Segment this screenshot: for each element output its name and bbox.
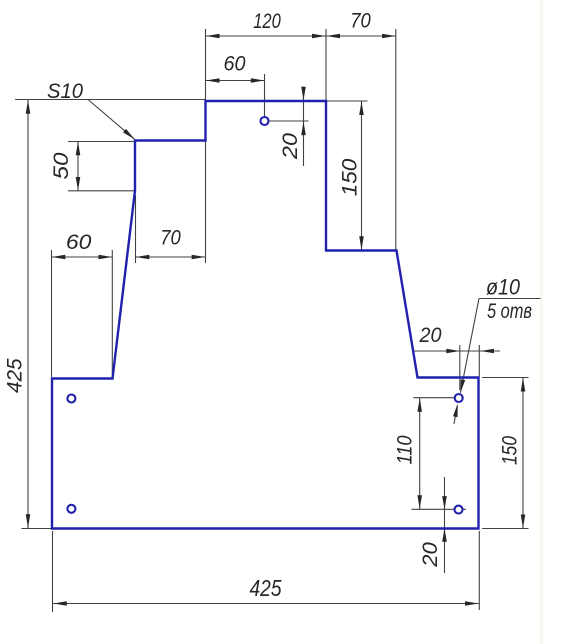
svg-text:20: 20: [419, 323, 442, 347]
arrow phi10 lower (points at circle): [453, 404, 458, 418]
svg-text:150: 150: [498, 436, 522, 465]
arrow 20-top lower (points up): [301, 122, 306, 136]
dimension line 110: [419, 398, 421, 509]
hole H4 right-upper: [455, 394, 463, 402]
svg-text:425: 425: [2, 357, 26, 392]
S10 leader diagonal: [88, 100, 135, 140]
phi10 leader diagonal: [460, 299, 479, 393]
extension line x=479.3 bottom: [478, 531, 480, 610]
arrow 20-right at hole line (points right): [446, 349, 460, 354]
extension line x=396 down to shoulder corner: [395, 29, 397, 250]
arrow 425-left top: [26, 100, 31, 114]
dimension line 60 left: [52, 256, 113, 258]
extension line x=326 top: [325, 29, 327, 100]
svg-text:S10: S10: [47, 79, 83, 103]
arrow 150-top lower: [359, 236, 364, 250]
extension line x=205 top: [205, 29, 207, 100]
faint page fold line: [540, 0, 543, 644]
arrow 20-top upper (points down): [301, 87, 306, 101]
extension line 425 left bottom: [22, 528, 52, 530]
extension line x=51.5 for 60 left: [51, 250, 53, 377]
arrow 50 bottom: [76, 177, 81, 191]
arrow phi10 upper (points at circle): [460, 379, 465, 393]
arrow 120 right: [312, 34, 326, 39]
arrow 110 top: [417, 398, 422, 412]
svg-text:70: 70: [160, 226, 181, 250]
dimension line 70 left: [136, 256, 206, 258]
extension line x=205.5 lower for 70: [205, 141, 207, 264]
extension line hole H4 horizontal: [413, 397, 454, 399]
arrow 150-top upper: [359, 102, 364, 116]
arrow 60-top right: [251, 78, 264, 83]
svg-text:60: 60: [66, 230, 92, 254]
phi10 leader lower tail: [454, 406, 457, 424]
arrow 20-bottom lower (points up): [442, 528, 447, 542]
arrow 425-bottom left: [53, 601, 67, 606]
arrow 150-right bottom: [521, 515, 526, 529]
dimension line 425 bottom: [53, 603, 479, 605]
arrow 20-bottom upper (points down): [442, 496, 447, 510]
dimension line 150 right: [522, 378, 524, 529]
extension line y=99.5 (425 top) and S10 shelf: [15, 99, 205, 101]
extension line x=479.5 corner: [478, 345, 480, 377]
part outline (plate contour): [52, 101, 479, 529]
extension line x=52.5 bottom: [52, 531, 54, 612]
arrow 120 left: [206, 34, 220, 39]
hole H2 left-upper: [67, 395, 75, 403]
hole H1 top-center: [261, 117, 269, 125]
extension line x=112 for 60 left: [111, 250, 113, 374]
svg-text:70: 70: [350, 9, 371, 33]
arrow 20-right at edge line (points left): [481, 349, 495, 354]
extension line hole H1 horizontal: [265, 120, 309, 122]
hole H5 right-lower: [455, 506, 463, 514]
arrow 60-left right: [99, 255, 113, 260]
extension line y=377.5 right: [482, 377, 529, 379]
svg-text:ø10: ø10: [486, 275, 520, 300]
dimension line 70 top: [326, 35, 396, 37]
arrow 70-left right: [192, 255, 206, 260]
hole H3 left-lower: [67, 505, 75, 513]
dimension line 20 right: [413, 350, 500, 352]
svg-text:5 отв: 5 отв: [487, 299, 532, 323]
arrow S10 leader: [123, 129, 135, 140]
dimension line 120: [206, 35, 327, 37]
arrow 425-bottom right: [465, 601, 479, 606]
phi10 leader shelf: [479, 298, 541, 300]
extension line 50 lower: [68, 190, 135, 192]
extension line y=528.5 right: [482, 528, 529, 530]
svg-text:150: 150: [337, 159, 361, 197]
arrow 70-top right: [382, 34, 396, 39]
extension line x=135.5 for 70: [135, 195, 137, 263]
arrow 425-left bottom: [26, 514, 31, 528]
dimension line 60 top: [206, 80, 265, 82]
dimension line 425 left: [27, 100, 29, 528]
extension line hole H1 vertical: [264, 74, 266, 117]
extension line 50 upper: [68, 141, 134, 143]
dimension line 20 top-center vertical: [303, 87, 305, 167]
arrow 70-left left: [136, 255, 150, 260]
svg-text:50: 50: [49, 152, 73, 179]
dimension line 150 top-right: [361, 101, 363, 250]
arrow 60-left left: [52, 255, 66, 260]
dimension line 20 bottom vertical: [444, 477, 446, 573]
arrow 50 top: [76, 142, 81, 156]
extension line hole H5 horizontal: [412, 508, 467, 510]
svg-text:60: 60: [224, 52, 246, 76]
extension line x=460 hole H4: [459, 345, 461, 390]
dimension line 50: [77, 142, 79, 191]
extension line y=101 for 150 top: [326, 100, 368, 102]
svg-text:20: 20: [418, 542, 442, 568]
arrow 70-top left: [327, 34, 341, 39]
svg-text:120: 120: [253, 9, 281, 33]
arrow 60-top left: [206, 78, 220, 83]
arrow 150-right top: [521, 378, 526, 392]
svg-text:425: 425: [250, 575, 282, 601]
svg-text:110: 110: [392, 435, 416, 464]
svg-text:20: 20: [278, 133, 302, 160]
arrow 110 bottom: [417, 495, 422, 509]
